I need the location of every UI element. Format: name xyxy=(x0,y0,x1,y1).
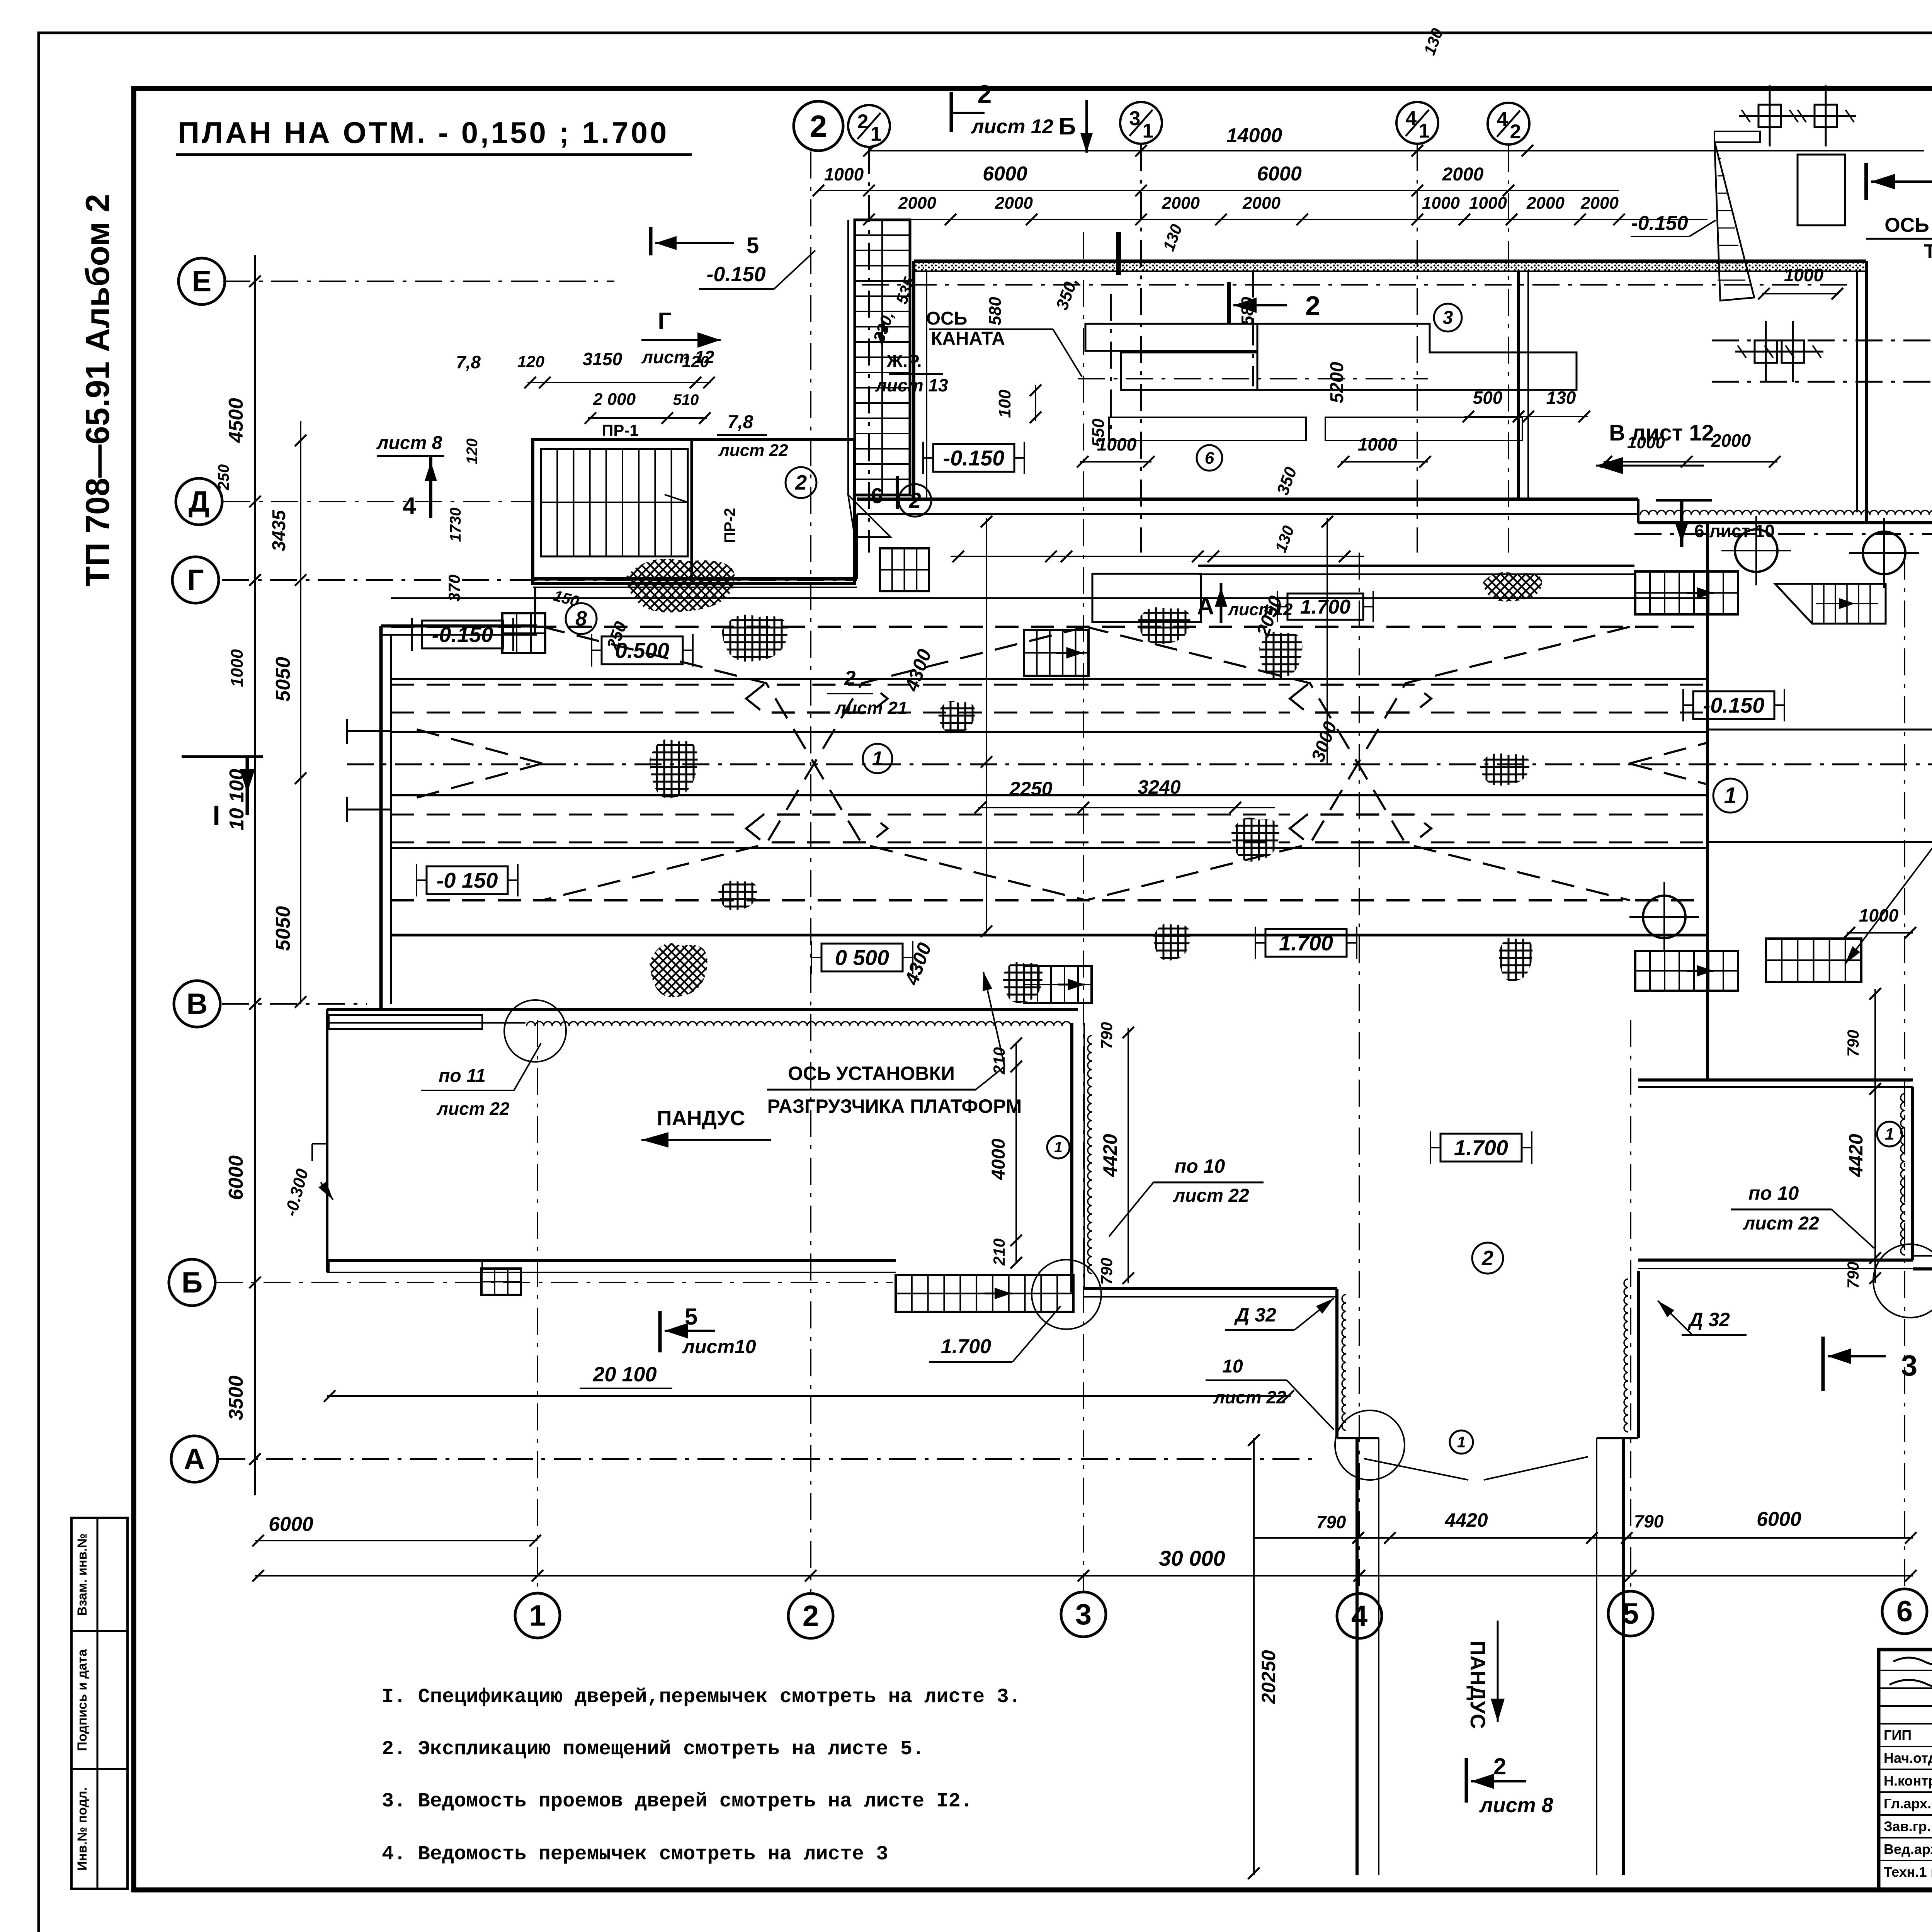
svg-text:790: 790 xyxy=(1316,1512,1346,1532)
label -0.150 with leader top xyxy=(1631,212,1716,236)
svg-text:500: 500 xyxy=(1473,388,1503,408)
svg-text:ПАНДУС: ПАНДУС xyxy=(657,1107,745,1130)
hatched patch at 2985,2393 xyxy=(1153,923,1190,961)
short axis x=3243 xyxy=(1252,270,1254,386)
svg-text:4500: 4500 xyxy=(225,398,247,443)
rope axis dash xyxy=(1110,294,1112,437)
svg-text:3150: 3150 xyxy=(583,349,622,369)
svg-text:Б: Б xyxy=(182,1266,203,1299)
svg-text:120: 120 xyxy=(517,352,544,371)
protrusion court bottom right wall xyxy=(1638,1260,1913,1269)
railway axis in hall (ОСЬ Ж.Д ПУТИ) xyxy=(347,764,1932,765)
bottom dim 30000 xyxy=(252,1546,1917,1582)
dim 120 annex xyxy=(464,439,481,464)
svg-text:5050: 5050 xyxy=(272,657,294,702)
diamond warning diagonals xyxy=(406,627,1708,900)
axis circle А xyxy=(171,1436,218,1482)
svg-text:1: 1 xyxy=(1885,1125,1894,1143)
bottom ramp right wall xyxy=(1597,1438,1624,1875)
label ось установки разгрузчика xyxy=(767,972,1022,1117)
stair left edge lower xyxy=(481,1269,521,1295)
svg-text:2000: 2000 xyxy=(1711,430,1751,451)
svg-text:2: 2 xyxy=(1493,1753,1506,1779)
level 1.700 box a xyxy=(1277,591,1373,622)
dim 250 upper-left xyxy=(215,464,232,491)
neck right wall xyxy=(1624,1271,1638,1438)
label по 10 лист 22 right xyxy=(1731,1182,1874,1248)
protrusion 4420 left xyxy=(1097,1022,1134,1285)
svg-text:лист 13: лист 13 xyxy=(875,375,948,395)
dim 2050 rotated xyxy=(1253,516,1333,764)
pit dashed opening rows xyxy=(391,685,1708,842)
svg-text:Нач.отд.: Нач.отд. xyxy=(1884,1750,1932,1766)
label -0.300 left xyxy=(281,1144,333,1218)
section mark 2 mid xyxy=(1229,282,1320,325)
stair S1 side walls xyxy=(848,220,891,537)
section bar in top wall xyxy=(1116,232,1121,275)
svg-text:по 10: по 10 xyxy=(1748,1182,1799,1204)
column cross marker 4580,300 xyxy=(1739,85,1800,146)
axis line 1 (vertical) xyxy=(537,1020,538,1592)
axis line 3 (vertical) xyxy=(1083,232,1084,1592)
svg-text:6: 6 xyxy=(871,483,883,508)
stair right-area C xyxy=(1635,951,1738,991)
svg-text:Д 32: Д 32 xyxy=(1234,1304,1276,1326)
dim 5050 upper xyxy=(272,657,294,702)
dim ticks row below wall xyxy=(951,551,1364,562)
svg-text:-0.150: -0.150 xyxy=(1631,212,1688,235)
label В лист 12 xyxy=(1596,420,1714,474)
right ramp bottom wall xyxy=(1913,1256,1932,1269)
dim 350 a xyxy=(1053,275,1082,312)
hatched patch at 3838,1483 xyxy=(1483,572,1542,602)
hatched patch at 3187,2119 xyxy=(1231,818,1279,862)
dim 4300 upper xyxy=(900,516,992,768)
svg-text:0.500: 0.500 xyxy=(615,638,669,663)
left ramp bottom wall xyxy=(327,1260,896,1272)
axis circle 6 bottom xyxy=(1882,1589,1927,1634)
circled number 2 at 2073,1249 xyxy=(786,467,816,498)
label 1.700 leader a xyxy=(929,1306,1061,1362)
axis line Б (horizontal) xyxy=(216,1282,893,1283)
svg-text:лист 21: лист 21 xyxy=(834,698,907,718)
dim 3500 left xyxy=(225,1376,247,1420)
svg-text:790: 790 xyxy=(1097,1258,1116,1285)
axis circle 5 bottom xyxy=(1608,1591,1653,1636)
label пути для люкосъёмника xyxy=(1845,580,1932,964)
small section stair triangle xyxy=(1714,131,1760,301)
svg-text:1000: 1000 xyxy=(1358,434,1398,454)
external stair at top-left xyxy=(855,220,910,495)
svg-text:лист 12: лист 12 xyxy=(641,347,714,367)
dim 1000 hall b xyxy=(1338,434,1431,468)
chimney column rect west xyxy=(1798,155,1845,225)
svg-text:2: 2 xyxy=(978,80,992,108)
label 4 лист 8 annex xyxy=(376,433,444,519)
level -0.150 box b xyxy=(417,864,518,896)
svg-text:Зав.гр.: Зав.гр. xyxy=(1884,1818,1931,1834)
axis circle Е xyxy=(179,258,225,304)
circled number 1 at 3782,3732 xyxy=(1450,1430,1473,1454)
detail bubble central left xyxy=(1032,1260,1101,1329)
section I left xyxy=(182,757,263,831)
stamp handwritten signatures xyxy=(1889,1658,1932,1875)
svg-text:лист12: лист12 xyxy=(1228,600,1293,619)
upper hall bottom wall xyxy=(857,499,1638,523)
right room bottom wall xyxy=(1638,1080,1913,1087)
axis line 2/1 (vertical) xyxy=(868,147,870,553)
track hall inner right wall xyxy=(1706,523,1709,1080)
sidebar album label (rotated) xyxy=(79,194,116,587)
svg-text:лист10: лист10 xyxy=(682,1336,756,1357)
svg-text:2: 2 xyxy=(908,488,921,512)
annex bottom wall on Г xyxy=(533,514,857,587)
svg-text:2000: 2000 xyxy=(1442,164,1484,185)
svg-text:3: 3 xyxy=(1075,1598,1092,1631)
svg-text:6: 6 xyxy=(1205,449,1214,468)
svg-text:6000: 6000 xyxy=(1757,1508,1801,1531)
detail bubble left ramp xyxy=(504,1000,566,1062)
dim 5200 xyxy=(1327,362,1347,403)
svg-text:4: 4 xyxy=(1497,108,1508,131)
svg-text:ОСЬ ДЫМОВОЙ: ОСЬ ДЫМОВОЙ xyxy=(1884,214,1932,236)
dim 1000 stair chimney xyxy=(1758,265,1843,299)
conveyor lower bars xyxy=(1109,417,1522,440)
hatched patch at 3830,1952 xyxy=(1480,753,1530,786)
svg-text:3: 3 xyxy=(1129,107,1141,130)
column cross marker 4640,910 xyxy=(1762,321,1823,382)
svg-text:1.700: 1.700 xyxy=(1300,596,1350,618)
svg-text:790: 790 xyxy=(1844,1030,1862,1057)
detail bubble central right xyxy=(1873,1244,1932,1318)
svg-text:2000: 2000 xyxy=(1162,194,1200,213)
dim 1000 2000 hall right xyxy=(1600,430,1781,468)
svg-text:2000: 2000 xyxy=(1526,194,1565,213)
svg-text:-0.150: -0.150 xyxy=(943,446,1005,470)
dim 6000 left xyxy=(225,1155,247,1200)
svg-text:4420: 4420 xyxy=(1845,1134,1867,1177)
track hall bottom wall xyxy=(391,934,1708,937)
chimney axis horizontal extra xyxy=(1712,381,1932,383)
conveyor rectangle A xyxy=(1085,324,1257,351)
axis line Е (horizontal) xyxy=(223,281,614,282)
level 1.700 box b xyxy=(1430,1131,1532,1164)
svg-text:1: 1 xyxy=(1054,1139,1063,1156)
hatched patch at 2595,2492 xyxy=(1003,962,1043,1003)
svg-text:Г: Г xyxy=(187,564,204,597)
rails right outside xyxy=(1708,724,1932,848)
svg-text:0 500: 0 500 xyxy=(835,946,889,970)
svg-text:6000: 6000 xyxy=(225,1155,247,1200)
left ramp left end xyxy=(326,1009,328,1272)
section mark 3 right xyxy=(1866,163,1932,201)
dim 7,8 лист 22 xyxy=(717,412,788,460)
conveyor outline right xyxy=(1257,324,1577,390)
upper hall top wall xyxy=(914,261,1866,271)
bottom ramp wall caps xyxy=(1337,1438,1638,1480)
svg-text:ГИП: ГИП xyxy=(1884,1727,1912,1743)
circled number 1 at 2271,1963 xyxy=(863,744,892,773)
hatched patch at 1681,2445 xyxy=(650,943,707,997)
svg-text:Подпись и дата: Подпись и дата xyxy=(75,1649,90,1751)
top dim row3 xyxy=(863,194,1708,225)
svg-text:3435: 3435 xyxy=(269,510,289,551)
axis circle В xyxy=(174,981,220,1027)
svg-text:Вед.арх.: Вед.арх. xyxy=(1884,1841,1932,1857)
svg-text:1000: 1000 xyxy=(1469,194,1507,213)
dim 3435 left xyxy=(269,510,289,551)
svg-text:790: 790 xyxy=(1097,1022,1116,1049)
axis line А (horizontal) xyxy=(218,1458,1314,1460)
label 6 лист 10 xyxy=(1656,500,1775,547)
axis circle 3/1 top xyxy=(1120,102,1162,144)
svg-text:лист 8: лист 8 xyxy=(1479,1794,1553,1817)
label Д 32 right xyxy=(1658,1301,1747,1335)
hall northwest step wall xyxy=(381,587,537,635)
svg-text:-0.150: -0.150 xyxy=(432,622,493,647)
svg-text:4000: 4000 xyxy=(988,1138,1009,1180)
dim 1000 right lower xyxy=(1844,905,1916,939)
left dim chain inner xyxy=(295,421,306,1008)
svg-text:КАНАТА: КАНАТА xyxy=(931,328,1005,349)
svg-text:4: 4 xyxy=(1351,1600,1367,1633)
svg-text:790: 790 xyxy=(1844,1262,1862,1289)
hatched patch at 1859,2281 xyxy=(718,881,757,910)
dim 130 a xyxy=(1159,222,1185,253)
upper hall inner wall at axis 4/2 xyxy=(1519,271,1528,499)
svg-text:4420: 4420 xyxy=(1444,1509,1488,1531)
upper platform edge line xyxy=(391,597,1708,599)
svg-text:1.700: 1.700 xyxy=(1279,931,1333,955)
manhole at 4876,1431 xyxy=(1849,518,1919,588)
level 0.500 box a xyxy=(592,634,693,667)
svg-text:1: 1 xyxy=(1419,120,1430,142)
axis line 6 (vertical) xyxy=(1904,553,1905,1592)
upper hall left wall xyxy=(914,261,927,499)
section mark 2 top xyxy=(951,80,992,132)
bottom dim 6000 xyxy=(252,1513,541,1546)
label 3 лист 9 xyxy=(1823,1337,1932,1391)
svg-text:Инв.№ подл.: Инв.№ подл. xyxy=(75,1787,90,1871)
dim 580 a xyxy=(986,297,1005,325)
svg-text:20 100: 20 100 xyxy=(592,1363,656,1386)
svg-text:2: 2 xyxy=(1305,291,1320,321)
svg-text:2000: 2000 xyxy=(898,194,936,213)
svg-text:120: 120 xyxy=(464,439,481,464)
svg-text:Взам. инв.№: Взам. инв.№ xyxy=(75,1533,90,1616)
В wall waterproofing scallop xyxy=(527,1022,1071,1026)
bottom ramp dims xyxy=(1254,1508,1917,1544)
dim 550 xyxy=(1089,418,1108,447)
svg-text:3240: 3240 xyxy=(1138,776,1180,798)
dim 4300 lower xyxy=(900,764,992,988)
axis circle 2/1 top xyxy=(848,105,890,147)
svg-text:-0.150: -0.150 xyxy=(706,263,765,286)
svg-text:по 10: по 10 xyxy=(1175,1155,1225,1177)
column cross marker 4570,910 xyxy=(1735,321,1796,382)
svg-text:I. Спецификацию дверей,перемыч: I. Спецификацию дверей,перемычек смотрет… xyxy=(382,1685,1021,1708)
svg-text:20250: 20250 xyxy=(1258,1650,1279,1704)
bottom ramp left wall xyxy=(1357,1438,1379,1875)
label A лист 12 xyxy=(1197,583,1293,623)
dim 20250 rotated xyxy=(1248,1434,1279,1879)
axis circle Г xyxy=(172,557,219,603)
axis line 2 (vertical) xyxy=(810,151,811,1592)
dim 330 xyxy=(869,309,897,345)
svg-text:4: 4 xyxy=(403,493,416,519)
svg-text:Е: Е xyxy=(192,265,212,298)
pit opening octagon upper at x=3521 xyxy=(1290,685,1431,713)
axis circle 4 bottom xyxy=(1337,1594,1382,1638)
svg-text:ПЛАН НА ОТМ. - 0,150 ; 1.: ПЛАН НА ОТМ. - 0,150 ; 1.700 xyxy=(178,116,669,150)
axis line Г (horizontal right) xyxy=(1634,533,1932,535)
svg-text:Б: Б xyxy=(1059,113,1076,140)
manhole at 4545,1425 xyxy=(1721,516,1791,585)
svg-text:РАЗГРУЗЧИКА ПЛАТФОРМ: РАЗГРУЗЧИКА ПЛАТФОРМ xyxy=(767,1095,1022,1117)
label ПР-1 xyxy=(602,421,639,439)
svg-text:5: 5 xyxy=(685,1304,697,1330)
svg-text:5: 5 xyxy=(747,233,759,258)
svg-text:Д: Д xyxy=(189,485,209,518)
chimney axis horizontal lower xyxy=(1712,340,1932,342)
svg-text:1000: 1000 xyxy=(1784,265,1824,285)
svg-text:1000: 1000 xyxy=(228,649,247,687)
circled number 1 at 4478,2059 xyxy=(1713,779,1747,813)
svg-text:по 11: по 11 xyxy=(439,1066,486,1086)
svg-text:1: 1 xyxy=(529,1599,546,1632)
label 5 section top-left xyxy=(651,227,759,258)
svg-text:580: 580 xyxy=(986,297,1005,325)
label лист 12 Б top xyxy=(970,100,1093,153)
dim 5050 lower xyxy=(272,906,294,951)
svg-text:3: 3 xyxy=(1443,308,1453,328)
svg-text:4420: 4420 xyxy=(1099,1134,1121,1177)
sidebar inventory table xyxy=(71,1518,128,1889)
axis circle 3 bottom xyxy=(1061,1592,1106,1637)
svg-text:ТРУБЫ: ТРУБЫ xyxy=(1924,240,1932,263)
circled number 1 at 4890,2935 xyxy=(1877,1122,1902,1146)
pit opening octagon lower at x=2114 xyxy=(746,815,888,842)
svg-text:1: 1 xyxy=(1457,1434,1466,1451)
svg-text:5200: 5200 xyxy=(1327,362,1347,403)
track hall left wall xyxy=(381,626,391,1009)
crane axis dash-dot xyxy=(862,284,1855,286)
label ПАНДУС bottom rotated xyxy=(1466,1621,1505,1729)
svg-text:3500: 3500 xyxy=(225,1376,247,1420)
svg-text:1000: 1000 xyxy=(1859,905,1899,925)
column cross marker 4725,300 xyxy=(1795,85,1856,146)
axis line 5 (vertical) xyxy=(1630,1020,1631,1592)
hatched patch at 2945,1574 xyxy=(1138,607,1190,644)
svg-text:7,8: 7,8 xyxy=(456,352,481,372)
right room top wall xyxy=(1638,510,1932,523)
dim 2250 3240 xyxy=(975,776,1275,813)
dim 130 b xyxy=(1271,523,1298,555)
svg-text:6000: 6000 xyxy=(983,163,1027,185)
dim 100 xyxy=(995,384,1041,423)
svg-text:1: 1 xyxy=(1143,120,1154,142)
level -0.150 box c xyxy=(923,442,1024,474)
svg-text:790: 790 xyxy=(1634,1511,1664,1531)
svg-text:лист 22: лист 22 xyxy=(1743,1213,1819,1234)
label 6 section annex xyxy=(871,476,897,509)
label Г лист 12 section xyxy=(641,308,721,367)
svg-text:2: 2 xyxy=(810,109,827,143)
level -0.150 box a xyxy=(412,618,513,651)
svg-text:8: 8 xyxy=(575,607,587,630)
label -0.150 top-left xyxy=(699,250,815,289)
svg-text:250: 250 xyxy=(215,464,232,491)
stair mid-left upper xyxy=(880,548,929,591)
svg-text:6000: 6000 xyxy=(269,1513,313,1536)
svg-text:лист 22: лист 22 xyxy=(718,441,788,460)
section A viewport box xyxy=(1092,574,1201,622)
axis circle 4/2 top xyxy=(1488,103,1529,145)
svg-text:-0 150: -0 150 xyxy=(437,868,498,893)
svg-text:Ж.Р.: Ж.Р. xyxy=(886,351,922,371)
label 10 лист 22 xyxy=(1206,1356,1334,1430)
upper hall right wall xyxy=(1857,261,1866,523)
circled number 3 at 3747,822 xyxy=(1434,304,1462,332)
svg-text:В лист 12: В лист 12 xyxy=(1609,420,1714,446)
pit opening octagon upper at x=2114 xyxy=(746,685,888,713)
axis circle 2 top xyxy=(794,101,843,151)
svg-text:6000: 6000 xyxy=(1257,163,1302,185)
dim 130 top xyxy=(1420,26,1446,58)
svg-text:2000: 2000 xyxy=(1242,194,1281,213)
label 7,8 top xyxy=(456,352,481,372)
hatched patch at 2428,1817 xyxy=(938,701,975,733)
circled number 2 at 2368,1295 xyxy=(899,484,931,517)
svg-text:6 лист 10: 6 лист 10 xyxy=(1694,521,1775,541)
annex inner wall xyxy=(690,440,693,583)
svg-text:2: 2 xyxy=(803,1600,819,1633)
svg-text:2: 2 xyxy=(857,111,869,133)
svg-text:1.700: 1.700 xyxy=(1454,1136,1508,1160)
svg-text:100: 100 xyxy=(995,389,1014,418)
svg-text:ОСЬ: ОСЬ xyxy=(926,308,968,329)
lower gallery wall xyxy=(1198,566,1634,574)
axis line 4 (vertical) xyxy=(1359,553,1360,1592)
svg-text:лист 22: лист 22 xyxy=(1173,1185,1249,1206)
protrusion left dims xyxy=(988,1037,1022,1269)
central protrusion right wall xyxy=(1901,1087,1913,1260)
dim 500 130 xyxy=(1463,388,1590,422)
svg-text:Г: Г xyxy=(658,308,671,335)
dim 20 100 left xyxy=(324,1363,1294,1402)
axis circle 4/1 top xyxy=(1396,102,1438,144)
label ПР-2 rotated xyxy=(721,508,738,543)
svg-text:Д 32: Д 32 xyxy=(1687,1309,1730,1330)
svg-text:2: 2 xyxy=(1510,121,1521,143)
level -0.150 box d xyxy=(1683,689,1784,721)
svg-text:5050: 5050 xyxy=(272,906,294,951)
svg-text:лист 12: лист 12 xyxy=(970,116,1053,138)
svg-text:2: 2 xyxy=(795,471,807,494)
central protrusion left wall xyxy=(1072,1023,1092,1293)
circled number 2 at 3850,3256 xyxy=(1472,1243,1503,1274)
dim 1000 hall xyxy=(1077,434,1155,468)
conveyor rectangle B xyxy=(1121,352,1257,390)
axis line Д (horizontal) xyxy=(223,501,533,502)
detail bubble neck left xyxy=(1335,1410,1405,1480)
axis line В (horizontal) xyxy=(222,1003,367,1005)
svg-text:лист 8: лист 8 xyxy=(376,433,442,453)
svg-text:ПР-2: ПР-2 xyxy=(721,508,738,543)
label ось дымовой трубы xyxy=(1866,135,1932,263)
svg-text:ПР-1: ПР-1 xyxy=(602,421,639,439)
hatched patch at 1681,1917 xyxy=(650,739,698,798)
